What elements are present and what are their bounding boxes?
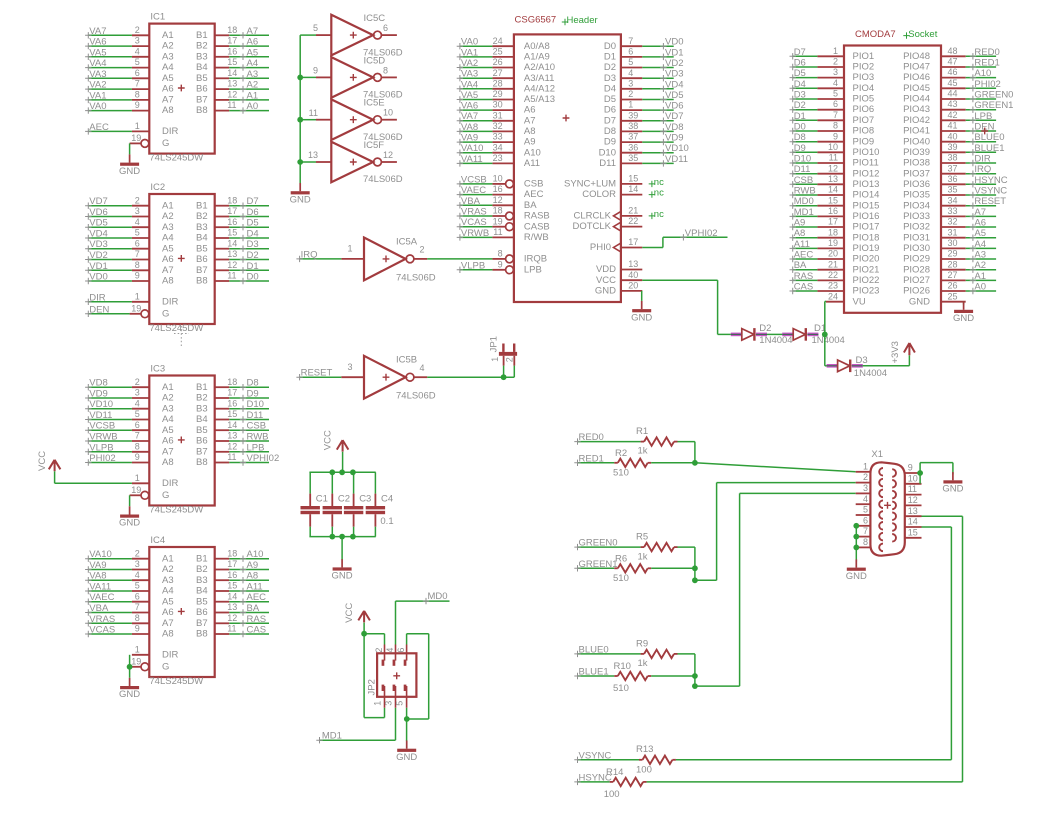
net VA7 wire	[85, 26, 132, 39]
svg-text:13: 13	[227, 79, 237, 89]
svg-text:9: 9	[135, 271, 140, 281]
net VLPB wire	[85, 442, 132, 455]
junction BLUE nets	[692, 673, 698, 679]
net VSYNC wire at CMODA7 right	[966, 186, 1008, 199]
svg-text:PIO14: PIO14	[853, 190, 880, 201]
net VA11 wire at CSG6567	[457, 154, 493, 167]
svg-text:19: 19	[131, 133, 141, 143]
svg-text:A8: A8	[247, 571, 259, 582]
svg-text:D8: D8	[247, 378, 259, 389]
svg-text:B2: B2	[196, 393, 208, 404]
svg-text:1: 1	[863, 461, 868, 471]
svg-text:17: 17	[828, 217, 838, 227]
svg-text:PIO8: PIO8	[853, 126, 875, 137]
svg-text:19: 19	[493, 216, 503, 226]
net BA wire	[229, 603, 269, 616]
svg-text:GND: GND	[119, 689, 140, 700]
svg-text:32: 32	[948, 217, 958, 227]
svg-text:17: 17	[628, 237, 638, 247]
svg-text:CASB: CASB	[524, 221, 550, 232]
svg-text:D1: D1	[247, 261, 259, 272]
svg-text:2: 2	[135, 195, 140, 205]
svg-text:1k: 1k	[638, 658, 648, 669]
net D10 wire at CMODA7 left	[790, 154, 818, 167]
svg-text:D11: D11	[247, 410, 264, 421]
net GREEN0 wire at CMODA7 right	[966, 90, 1014, 103]
net VA1 wire	[85, 90, 132, 103]
svg-text:BLUE0: BLUE0	[974, 132, 1004, 143]
net AEC wire	[229, 592, 269, 605]
wire VCC to JP2 pins 1 and 2	[364, 623, 384, 718]
svg-text:RED1: RED1	[974, 58, 999, 69]
svg-text:VRAS: VRAS	[461, 207, 487, 218]
svg-text:AEC: AEC	[794, 250, 814, 261]
svg-text:PIO33: PIO33	[903, 211, 930, 222]
net VD7 wire	[85, 196, 132, 209]
svg-text:A1: A1	[247, 90, 259, 101]
svg-text:CSB: CSB	[794, 175, 814, 186]
svg-text:VLPB: VLPB	[461, 260, 485, 271]
resistor R1 1k	[641, 437, 678, 445]
net VA3 wire at CSG6567	[457, 69, 493, 82]
svg-text:GND: GND	[909, 296, 930, 307]
capacitor C1	[301, 472, 320, 536]
svg-text:14: 14	[227, 420, 237, 430]
VCC supply for IC3 DIR	[37, 451, 60, 471]
svg-text:VSYNC: VSYNC	[974, 186, 1007, 197]
svg-text:7: 7	[135, 79, 140, 89]
svg-text:100: 100	[604, 789, 620, 800]
svg-text:13: 13	[227, 249, 237, 259]
svg-text:VA10: VA10	[461, 143, 484, 154]
net VD7 wire at CSG6567	[642, 111, 683, 124]
net VPHI02 wire from PHI0	[642, 228, 727, 248]
svg-text:6: 6	[383, 23, 388, 33]
net VA7 wire at CSG6567	[457, 111, 493, 124]
svg-text:46: 46	[948, 67, 958, 77]
net D6 wire at CMODA7 left	[790, 58, 818, 71]
svg-text:4: 4	[135, 398, 140, 408]
CSG6567 CLRCLK pin 21	[574, 206, 643, 222]
svg-text:VA9: VA9	[461, 133, 478, 144]
svg-text:1: 1	[135, 121, 140, 131]
svg-text:PIO21: PIO21	[853, 264, 880, 275]
svg-text:B2: B2	[196, 211, 208, 222]
svg-text:VD0: VD0	[89, 272, 107, 283]
net D11 wire at CMODA7 left	[790, 164, 818, 177]
wire capacitor bottom bus	[309, 536, 375, 538]
svg-text:11: 11	[493, 227, 502, 237]
net D10 wire	[229, 399, 269, 412]
svg-text:PIO4: PIO4	[853, 83, 875, 94]
resistor R14 100	[610, 778, 647, 786]
svg-text:2: 2	[504, 357, 514, 362]
svg-text:JP1: JP1	[489, 336, 500, 352]
net D2 wire at CMODA7 left	[790, 100, 818, 113]
svg-text:GND: GND	[290, 194, 311, 205]
svg-text:D0: D0	[794, 122, 806, 133]
svg-text:A7: A7	[974, 207, 986, 218]
svg-text:2: 2	[135, 548, 140, 558]
svg-text:PIO15: PIO15	[853, 200, 880, 211]
svg-text:RED0: RED0	[579, 432, 604, 443]
net A3 wire at CMODA7 right	[966, 250, 996, 263]
svg-text:MD0: MD0	[794, 196, 814, 207]
net VD3 wire at CSG6567	[642, 69, 683, 82]
svg-text:R13: R13	[636, 744, 653, 755]
svg-text:VD11: VD11	[89, 410, 112, 421]
svg-text:A8: A8	[162, 629, 174, 640]
net D8 wire at CMODA7 left	[790, 132, 818, 145]
svg-text:IRQB: IRQB	[524, 254, 547, 265]
svg-text:VPHI02: VPHI02	[247, 453, 280, 464]
net RESET wire into IC5B	[296, 368, 341, 381]
ground below capacitors	[332, 559, 353, 581]
svg-text:9: 9	[135, 624, 140, 634]
svg-text:17: 17	[227, 559, 237, 569]
svg-text:19: 19	[828, 238, 838, 248]
svg-text:JP2: JP2	[367, 679, 378, 695]
svg-text:A5: A5	[162, 243, 174, 254]
svg-text:GREEN1: GREEN1	[974, 100, 1013, 111]
svg-text:9: 9	[135, 100, 140, 110]
svg-text:VCAS: VCAS	[89, 625, 115, 636]
svg-text:B7: B7	[196, 265, 208, 276]
wire capacitor top bus	[309, 471, 375, 473]
junction at D1 cathode / VU net	[822, 332, 828, 338]
svg-text:VD5: VD5	[89, 218, 107, 229]
svg-text:PIO47: PIO47	[903, 62, 930, 73]
svg-text:RED1: RED1	[579, 453, 604, 464]
svg-text:A9: A9	[247, 560, 259, 571]
net VD11 wire at CSG6567	[642, 154, 688, 167]
jumper block JP2	[377, 645, 416, 708]
capacitor C4	[366, 472, 385, 536]
net RWB wire at CMODA7 left	[790, 186, 818, 199]
svg-text:10: 10	[908, 473, 918, 483]
svg-text:4: 4	[135, 570, 140, 580]
net VA1 wire at CSG6567	[457, 47, 493, 60]
svg-text:5: 5	[833, 89, 838, 99]
net A10 wire	[229, 549, 269, 562]
svg-text:7: 7	[628, 36, 633, 46]
svg-text:BA: BA	[524, 200, 537, 211]
svg-text:16: 16	[227, 398, 237, 408]
ground below CMODA7	[953, 302, 974, 324]
svg-text:nc: nc	[654, 209, 664, 220]
svg-text:15: 15	[828, 195, 838, 205]
net CSB wire at CMODA7 left	[790, 175, 818, 188]
svg-text:5: 5	[135, 57, 140, 67]
net VD1 wire	[85, 261, 132, 274]
svg-text:A5: A5	[974, 228, 986, 239]
svg-text:VAEC: VAEC	[461, 185, 486, 196]
svg-text:9: 9	[135, 452, 140, 462]
svg-text:R14: R14	[606, 767, 623, 778]
svg-text:VCSB: VCSB	[461, 174, 487, 185]
svg-text:DEN: DEN	[89, 304, 109, 315]
net VD10 wire	[85, 399, 132, 412]
svg-text:A4: A4	[162, 233, 174, 244]
svg-text:14: 14	[908, 517, 918, 527]
IC4 pin numbers	[131, 548, 237, 666]
net VAEC wire	[85, 592, 132, 605]
svg-text:VA7: VA7	[461, 111, 478, 122]
svg-text:VD5: VD5	[665, 90, 683, 101]
svg-text:VA10: VA10	[89, 549, 112, 560]
svg-text:VA4: VA4	[461, 79, 478, 90]
net CAS wire	[229, 625, 269, 638]
svg-text:VD1: VD1	[665, 47, 683, 58]
svg-text:A2: A2	[162, 211, 174, 222]
svg-text:D4: D4	[794, 79, 806, 90]
svg-text:VA0: VA0	[89, 101, 106, 112]
wire VCC to cap bus	[342, 452, 344, 473]
svg-text:A7: A7	[162, 618, 174, 629]
net D7 wire at CMODA7 left	[790, 47, 818, 60]
net VA4 wire at CSG6567	[457, 79, 493, 92]
net VD2 wire at CSG6567	[642, 58, 683, 71]
svg-text:16: 16	[227, 46, 237, 56]
svg-text:A3: A3	[162, 403, 174, 414]
wire IC3 pin19 to ground	[129, 495, 131, 506]
svg-text:39: 39	[628, 110, 638, 120]
svg-text:D8: D8	[604, 126, 616, 137]
net MD0 wire from JP2 pin 4	[396, 591, 450, 645]
svg-text:11: 11	[227, 452, 236, 462]
svg-text:HSYNC: HSYNC	[974, 175, 1007, 186]
svg-text:RWB: RWB	[247, 432, 269, 443]
svg-text:5: 5	[394, 701, 404, 706]
svg-text:C3: C3	[359, 494, 371, 505]
svg-text:VA2: VA2	[461, 58, 478, 69]
svg-text:22: 22	[628, 216, 638, 226]
svg-text:A6: A6	[162, 84, 174, 95]
svg-text:16: 16	[828, 206, 838, 216]
svg-text:VDD: VDD	[596, 264, 616, 275]
svg-text:A1: A1	[162, 30, 174, 41]
svg-text:A4/A12: A4/A12	[524, 83, 555, 94]
svg-text:74LS06D: 74LS06D	[363, 174, 403, 185]
svg-text:32: 32	[493, 121, 503, 131]
junction IC4 pin19	[127, 664, 133, 670]
svg-text:BLUE1: BLUE1	[579, 667, 609, 678]
net D3 wire at CMODA7 left	[790, 90, 818, 103]
svg-text:D10: D10	[794, 154, 811, 165]
IC5F pin numbers	[308, 150, 393, 160]
svg-text:IC1: IC1	[150, 12, 165, 23]
net D1 wire	[229, 261, 269, 274]
svg-text:PIO19: PIO19	[853, 243, 880, 254]
svg-text:6: 6	[135, 238, 140, 248]
wire R6 to junction	[651, 567, 695, 569]
net VA11 wire	[85, 582, 132, 595]
resistor R9 1k	[641, 650, 678, 658]
net A4 wire	[229, 58, 269, 71]
svg-text:D11: D11	[599, 158, 616, 169]
svg-text:A6: A6	[974, 218, 986, 229]
svg-text:20: 20	[828, 249, 838, 259]
net A7 wire	[229, 26, 269, 39]
svg-text:5: 5	[135, 409, 140, 419]
svg-text:9: 9	[313, 66, 318, 76]
svg-text:A9: A9	[794, 218, 806, 229]
svg-text:4: 4	[628, 68, 633, 78]
Socket label	[903, 29, 937, 40]
svg-text:PIO10: PIO10	[853, 147, 880, 158]
svg-text:A4: A4	[974, 239, 986, 250]
net D7 wire	[229, 196, 269, 209]
svg-text:3: 3	[135, 559, 140, 569]
net MD0 wire at CMODA7 left	[790, 196, 818, 209]
svg-text:44: 44	[948, 89, 958, 99]
svg-text:A3: A3	[247, 69, 259, 80]
svg-text:12: 12	[828, 163, 838, 173]
svg-text:B3: B3	[196, 51, 208, 62]
svg-text:15: 15	[628, 174, 638, 184]
svg-text:35: 35	[628, 153, 638, 163]
svg-text:5: 5	[313, 23, 318, 33]
svg-text:30: 30	[948, 238, 958, 248]
svg-text:VBA: VBA	[461, 196, 481, 207]
svg-text:R9: R9	[636, 639, 648, 650]
svg-text:VCC: VCC	[596, 275, 616, 286]
svg-text:8: 8	[863, 537, 868, 547]
svg-text:A7: A7	[162, 265, 174, 276]
svg-text:PIO28: PIO28	[903, 264, 930, 275]
svg-text:B8: B8	[196, 457, 208, 468]
svg-text:45: 45	[948, 78, 958, 88]
net VBA wire at CSG6567	[457, 196, 493, 209]
svg-text:GND: GND	[953, 313, 974, 324]
svg-text:GREEN1: GREEN1	[579, 559, 618, 570]
svg-text:CSB: CSB	[247, 421, 267, 432]
net AEC wire at CMODA7 left	[790, 250, 818, 263]
svg-text:11: 11	[829, 153, 838, 163]
net DIR wire (pin 1 DIR)	[85, 292, 132, 305]
CSG6567 VDD pin 13	[596, 259, 642, 275]
svg-text:IC5D: IC5D	[364, 55, 386, 66]
net VCAS wire	[85, 625, 132, 638]
svg-text:A11: A11	[794, 239, 810, 250]
svg-text:PIO48: PIO48	[903, 51, 930, 62]
svg-text:VA5: VA5	[461, 90, 478, 101]
svg-text:6: 6	[396, 648, 406, 653]
svg-text:7: 7	[833, 110, 838, 120]
svg-text:14: 14	[227, 591, 237, 601]
IC IC4 74LS245DW octal transceiver	[130, 547, 230, 677]
svg-text:A0/A8: A0/A8	[524, 41, 550, 52]
net LPB wire at CMODA7 right	[966, 111, 996, 124]
wire IC5B output to JP1	[427, 366, 514, 378]
svg-text:18: 18	[227, 377, 237, 387]
svg-text:VBA: VBA	[89, 603, 109, 614]
svg-text:VD9: VD9	[89, 389, 107, 400]
svg-text:VA1: VA1	[461, 47, 478, 58]
svg-text:PIO30: PIO30	[903, 243, 930, 254]
svg-text:PIO20: PIO20	[853, 254, 880, 265]
net VD11 wire	[85, 410, 132, 423]
net D3 wire	[229, 239, 269, 252]
svg-text:GND: GND	[846, 571, 867, 582]
net A6 wire	[229, 37, 269, 50]
svg-text:A8: A8	[794, 228, 806, 239]
svg-text:A5/A13: A5/A13	[524, 94, 555, 105]
net VA6 wire at CSG6567	[457, 101, 493, 114]
net A1 wire at CMODA7 right	[966, 271, 996, 284]
Header label	[562, 15, 598, 26]
svg-text:PIO43: PIO43	[903, 104, 930, 115]
svg-text:3: 3	[135, 36, 140, 46]
junction cap bottom bus C3	[350, 534, 356, 540]
svg-text:IRQ: IRQ	[301, 249, 318, 260]
svg-text:RASB: RASB	[524, 211, 550, 222]
net VA5 wire at CSG6567	[457, 90, 493, 103]
svg-text:D9: D9	[794, 143, 806, 154]
net A3 wire	[229, 69, 269, 82]
svg-text:6: 6	[628, 47, 633, 57]
wire vertical input bus of IC5C-F	[299, 35, 301, 183]
net VA10 wire at CSG6567	[457, 143, 493, 156]
net VD0 wire at CSG6567	[642, 37, 683, 50]
connector X1 DB15	[856, 462, 922, 555]
net DEN wire at CMODA7 right	[966, 122, 996, 135]
svg-text:21: 21	[628, 206, 638, 216]
svg-text:D6: D6	[794, 58, 806, 69]
CSG6567 DOTCLK pin 22	[572, 216, 642, 232]
svg-text:VD7: VD7	[89, 196, 107, 207]
net RED0 wire	[574, 432, 640, 445]
svg-text:B6: B6	[196, 254, 208, 265]
net DIR wire at CMODA7 right	[966, 154, 996, 167]
svg-text:A7: A7	[247, 26, 259, 37]
wire R10 to junction	[651, 675, 695, 677]
net D4 wire	[229, 229, 269, 242]
svg-text:A2: A2	[162, 393, 174, 404]
svg-text:D0: D0	[247, 272, 259, 283]
svg-text:4: 4	[863, 494, 868, 504]
svg-text:VD6: VD6	[665, 101, 683, 112]
svg-text:CSG6567: CSG6567	[515, 15, 557, 26]
IC5D pin numbers	[313, 65, 388, 75]
svg-text:3: 3	[135, 388, 140, 398]
net VA8 wire	[85, 571, 132, 584]
svg-text:PIO7: PIO7	[853, 115, 875, 126]
svg-text:D6: D6	[247, 207, 259, 218]
svg-text:19: 19	[131, 656, 141, 666]
svg-text:R6: R6	[615, 553, 627, 564]
CMODA7 right pins PIO48-PIO26 and GND	[903, 46, 966, 307]
svg-text:VA4: VA4	[89, 58, 106, 69]
svg-text:42: 42	[948, 110, 958, 120]
wire cap bus to ground	[341, 537, 343, 560]
net VA9 wire at CSG6567	[457, 133, 493, 146]
junction X1 pin 8	[853, 545, 859, 551]
svg-text:9: 9	[908, 463, 913, 473]
svg-text:35: 35	[948, 185, 958, 195]
net CSB wire	[229, 421, 269, 434]
svg-text:4: 4	[420, 363, 425, 373]
svg-text:34: 34	[493, 142, 503, 152]
svg-text:A4: A4	[162, 62, 174, 73]
svg-text:PIO40: PIO40	[903, 136, 930, 147]
wire CSG6567 VCC to diode D2	[642, 280, 731, 334]
net MD1 wire at CMODA7 left	[790, 207, 818, 220]
svg-text:VRWB: VRWB	[89, 432, 117, 443]
net nc at pin 14	[649, 188, 664, 199]
svg-text:16: 16	[227, 217, 237, 227]
svg-text:B7: B7	[196, 618, 208, 629]
